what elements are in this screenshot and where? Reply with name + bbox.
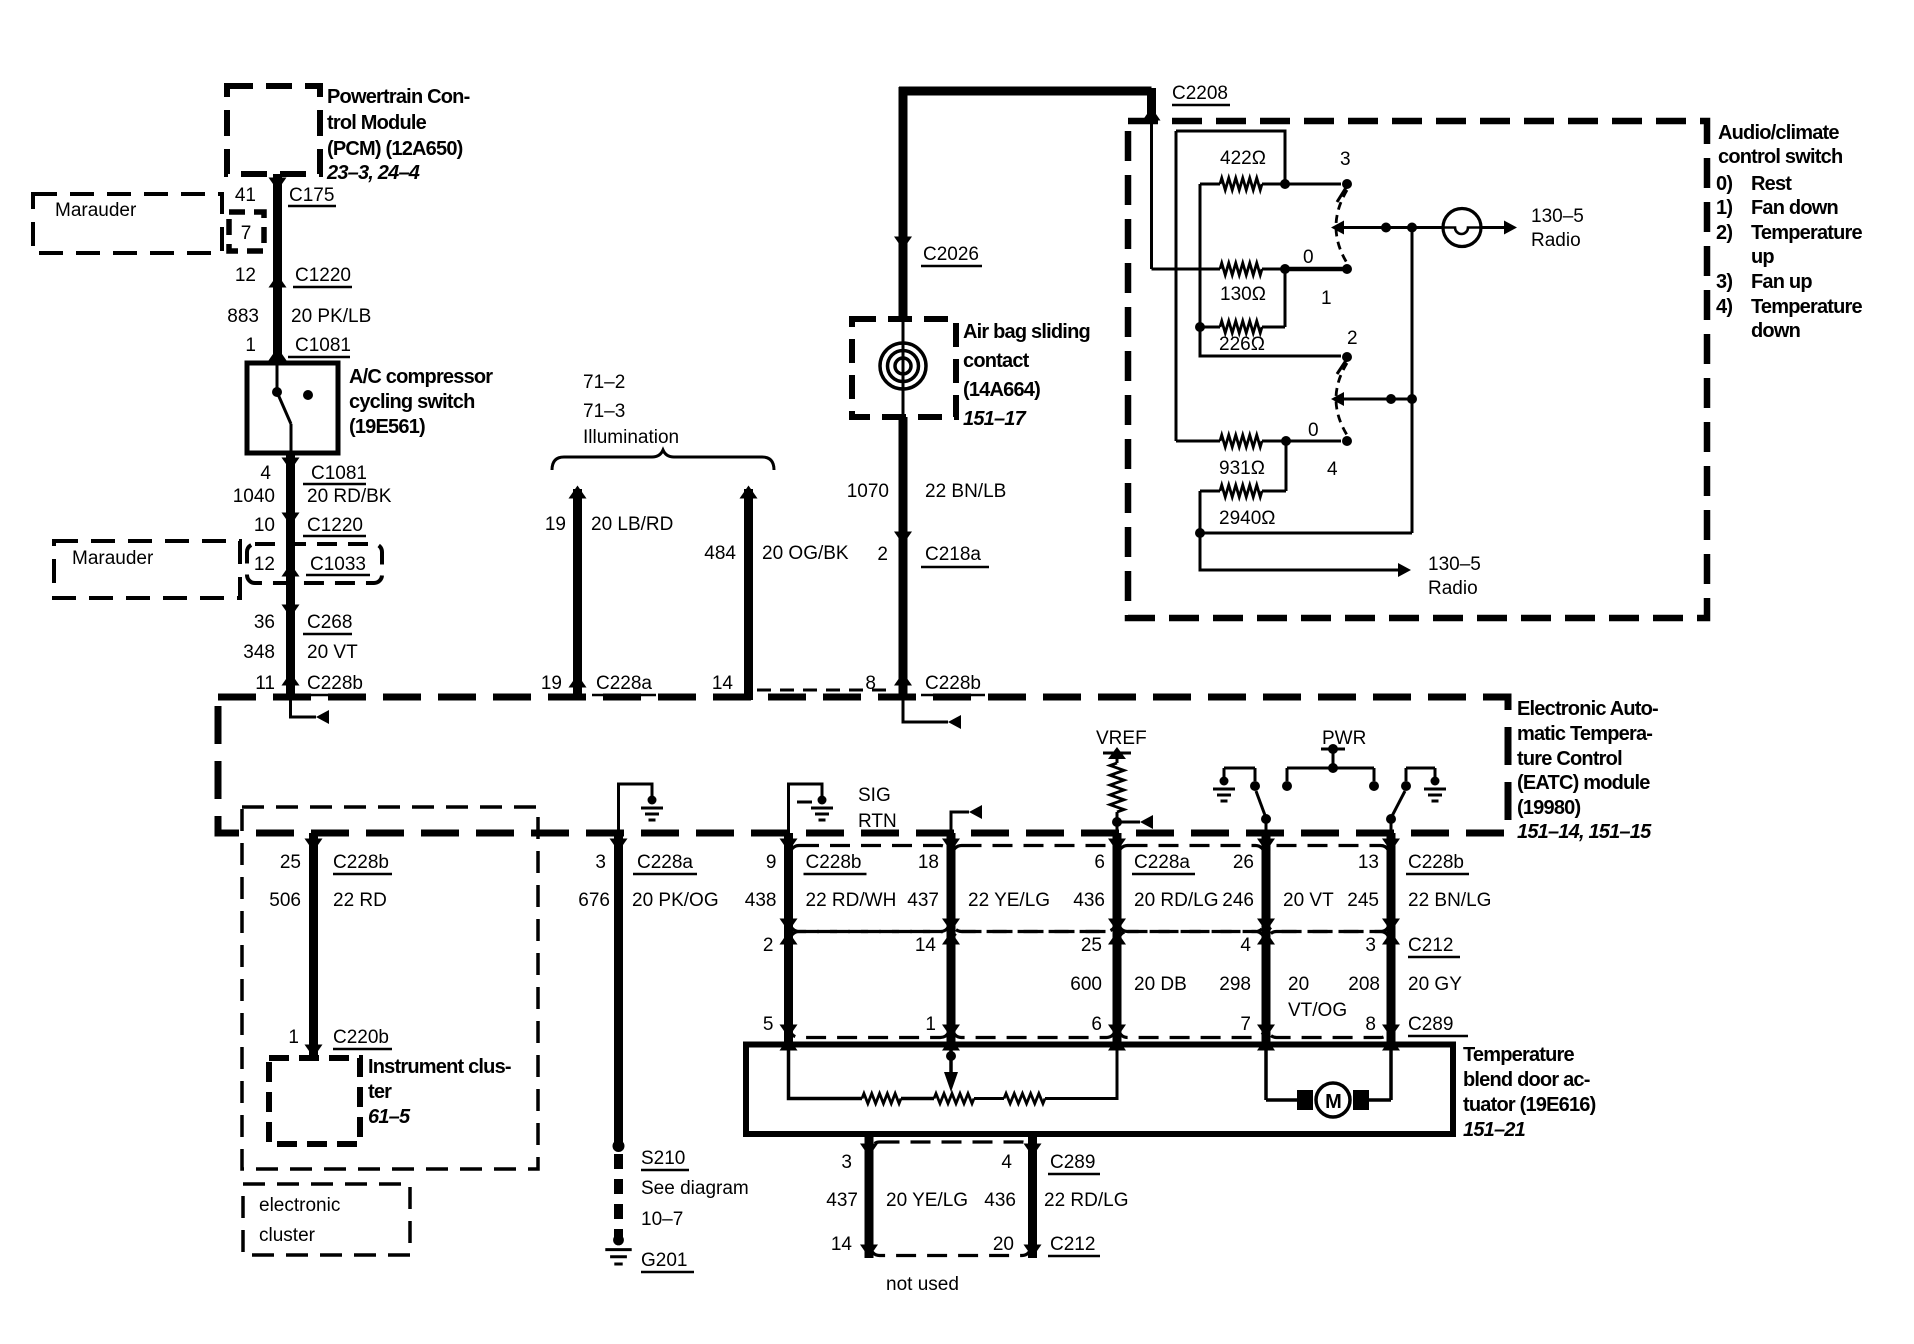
svg-text:(19980): (19980) xyxy=(1517,797,1580,819)
svg-text:C175: C175 xyxy=(289,185,334,206)
wire air bag to EATC pin8 xyxy=(899,417,908,700)
electronic cluster box xyxy=(243,1184,410,1255)
svg-text:20 PK/OG: 20 PK/OG xyxy=(632,890,719,911)
svg-text:4: 4 xyxy=(1240,935,1251,956)
VREF pullup resistor xyxy=(1103,752,1131,755)
svg-text:22 YE/LG: 22 YE/LG xyxy=(968,890,1050,911)
arrow to radio 130-5 top xyxy=(1481,226,1504,229)
svg-text:1: 1 xyxy=(925,1014,936,1035)
svg-text:tuator (19E616): tuator (19E616) xyxy=(1463,1094,1596,1116)
svg-text:Fan down: Fan down xyxy=(1751,197,1838,219)
svg-text:436: 436 xyxy=(984,1190,1016,1211)
svg-text:8: 8 xyxy=(865,673,876,694)
sub connector boxes row2 xyxy=(790,932,950,1038)
svg-text:PWR: PWR xyxy=(1322,728,1366,749)
svg-text:RTN: RTN xyxy=(858,811,897,832)
svg-text:Rest: Rest xyxy=(1751,173,1792,195)
wire from wiper junction down xyxy=(1411,228,1414,534)
svg-text:10–7: 10–7 xyxy=(641,1209,683,1230)
svg-text:Temperature: Temperature xyxy=(1751,222,1863,244)
bottom switch wiper arrow xyxy=(1331,392,1344,406)
svg-text:130–5: 130–5 xyxy=(1428,554,1481,575)
wire 19 20 LB/RD xyxy=(573,489,582,700)
EATC internal arrow pin 18 xyxy=(951,812,969,833)
EATC switch pin 26 blade xyxy=(1256,791,1266,818)
svg-text:41: 41 xyxy=(235,185,256,206)
svg-text:0: 0 xyxy=(1303,247,1314,268)
svg-text:4): 4) xyxy=(1716,296,1732,318)
svg-text:trol Module: trol Module xyxy=(327,112,427,134)
svg-text:S210: S210 xyxy=(641,1148,685,1169)
connector C228b pin8 arrow xyxy=(894,673,912,686)
svg-text:11: 11 xyxy=(255,673,275,694)
svg-text:23–3, 24–4: 23–3, 24–4 xyxy=(326,162,420,184)
svg-text:3: 3 xyxy=(1365,935,1376,956)
svg-text:22 RD/LG: 22 RD/LG xyxy=(1044,1190,1128,1211)
PCM module box (Powertrain Control Module) xyxy=(227,86,320,174)
svg-text:422Ω: 422Ω xyxy=(1220,148,1266,169)
svg-text:ture Control: ture Control xyxy=(1517,748,1622,770)
svg-text:348: 348 xyxy=(243,642,275,663)
svg-text:Marauder: Marauder xyxy=(72,548,154,569)
svg-text:437: 437 xyxy=(907,890,939,911)
svg-text:22 RD: 22 RD xyxy=(333,890,387,911)
audio/climate control switch box xyxy=(1128,121,1707,618)
contact 3 top switch xyxy=(1285,183,1341,186)
svg-text:C228a: C228a xyxy=(637,852,693,873)
svg-text:down: down xyxy=(1751,320,1800,342)
wire actuator pin 3 output xyxy=(865,1134,874,1258)
svg-text:208: 208 xyxy=(1348,974,1380,995)
resistor 130 ohm xyxy=(1152,268,1221,271)
svg-text:not used: not used xyxy=(886,1274,959,1295)
svg-text:931Ω: 931Ω xyxy=(1219,458,1265,479)
svg-text:20 RD/LG: 20 RD/LG xyxy=(1134,890,1218,911)
svg-text:1: 1 xyxy=(1321,288,1332,309)
wire wiper return junction xyxy=(1200,532,1412,535)
wire drop into audio/climate switch C2208 xyxy=(1147,88,1156,114)
svg-text:(14A664): (14A664) xyxy=(963,379,1040,401)
svg-text:C289: C289 xyxy=(1050,1152,1095,1173)
svg-text:contact: contact xyxy=(963,350,1030,372)
EATC internal arrow pin 11 xyxy=(291,700,317,717)
svg-text:25: 25 xyxy=(1081,935,1102,956)
svg-text:2: 2 xyxy=(763,935,774,956)
svg-text:151–17: 151–17 xyxy=(963,408,1027,430)
wire 422 lead down to 226 junction xyxy=(1199,184,1202,327)
splice 7 box xyxy=(229,212,264,251)
illumination brace xyxy=(552,450,774,470)
connector C1081 lower arrow xyxy=(282,458,300,471)
svg-text:Temperature: Temperature xyxy=(1751,296,1863,318)
connector C175 arrow xyxy=(269,178,287,191)
svg-text:20 RD/BK: 20 RD/BK xyxy=(307,486,392,507)
svg-text:25: 25 xyxy=(280,852,301,873)
svg-text:22 BN/LG: 22 BN/LG xyxy=(1408,890,1491,911)
resistor 2940 ohm xyxy=(1285,441,1288,491)
svg-text:1070: 1070 xyxy=(847,481,889,502)
svg-text:6: 6 xyxy=(1091,1014,1102,1035)
svg-text:Powertrain Con-: Powertrain Con- xyxy=(327,86,470,108)
EATC switch pin 26 ground bracket xyxy=(1224,767,1255,770)
svg-text:484: 484 xyxy=(704,543,736,564)
svg-text:14: 14 xyxy=(915,935,937,956)
svg-text:VT/OG: VT/OG xyxy=(1288,1000,1347,1021)
wire S210 to ground G201 dashed xyxy=(614,1154,623,1238)
svg-text:electronic: electronic xyxy=(259,1195,340,1216)
svg-text:Radio: Radio xyxy=(1531,230,1581,251)
air bag clockspring spiral xyxy=(902,319,905,417)
wire EATC pin 6 down through connectors xyxy=(1113,833,1122,1044)
svg-text:up: up xyxy=(1751,246,1774,268)
svg-text:10: 10 xyxy=(254,515,275,536)
wire EATC pin 26 down through connectors xyxy=(1262,833,1271,1044)
wire below A/C switch xyxy=(286,453,295,700)
svg-text:M: M xyxy=(1325,1091,1341,1113)
EATC internal ground pin 9 SIG RTN xyxy=(789,784,823,833)
svg-text:C2208: C2208 xyxy=(1172,83,1228,104)
svg-text:1): 1) xyxy=(1716,197,1732,219)
svg-text:1: 1 xyxy=(288,1027,299,1048)
EATC module box xyxy=(218,697,1508,833)
top loop wire to 422 ohm xyxy=(1176,131,1285,184)
svg-text:2: 2 xyxy=(1347,328,1358,349)
connector C218a arrow xyxy=(894,532,912,545)
svg-text:226Ω: 226Ω xyxy=(1219,334,1265,355)
svg-text:438: 438 xyxy=(745,890,777,911)
connector C2026 arrow xyxy=(894,237,912,250)
svg-text:130–5: 130–5 xyxy=(1531,206,1584,227)
svg-text:0: 0 xyxy=(1308,420,1319,441)
svg-text:SIG: SIG xyxy=(858,785,891,806)
audio switch feed wire from C2208 xyxy=(1150,121,1153,269)
svg-text:C212: C212 xyxy=(1050,1234,1095,1255)
wire EATC pin 25 to instrument cluster xyxy=(309,833,318,1058)
A/C compressor cycling switch box xyxy=(247,363,338,453)
svg-text:246: 246 xyxy=(1222,890,1254,911)
svg-text:C228a: C228a xyxy=(596,673,652,694)
svg-text:Instrument clus-: Instrument clus- xyxy=(368,1056,511,1078)
PWR feed bar xyxy=(1321,748,1345,751)
svg-text:20 LB/RD: 20 LB/RD xyxy=(591,514,673,535)
wire to radio 130-5 bottom xyxy=(1200,533,1398,570)
svg-text:C1033: C1033 xyxy=(310,554,366,575)
svg-text:19: 19 xyxy=(545,514,566,535)
svg-text:130Ω: 130Ω xyxy=(1220,284,1266,305)
svg-text:C289: C289 xyxy=(1408,1014,1453,1035)
svg-text:19: 19 xyxy=(541,673,562,694)
svg-text:Temperature: Temperature xyxy=(1463,1044,1575,1066)
not used connector box xyxy=(871,1142,1032,1256)
svg-text:151–14, 151–15: 151–14, 151–15 xyxy=(1517,821,1652,843)
splice S210 xyxy=(613,1140,625,1152)
svg-text:20: 20 xyxy=(1288,974,1309,995)
resistor 422 ohm xyxy=(1200,183,1220,186)
svg-text:7: 7 xyxy=(241,223,252,244)
Marauder option box xyxy=(33,194,222,253)
wire 484 20 OG/BK xyxy=(744,489,753,700)
svg-text:matic Tempera-: matic Tempera- xyxy=(1517,723,1652,745)
wire EATC pin 3 to splice S210 xyxy=(614,833,623,1146)
svg-text:4: 4 xyxy=(1327,459,1338,480)
svg-text:12: 12 xyxy=(254,554,275,575)
svg-text:14: 14 xyxy=(831,1234,853,1255)
svg-text:3: 3 xyxy=(1340,149,1351,170)
ground G201 xyxy=(613,1235,624,1246)
svg-text:676: 676 xyxy=(578,890,610,911)
svg-text:2): 2) xyxy=(1716,222,1732,244)
svg-text:Fan up: Fan up xyxy=(1751,271,1812,293)
svg-text:C1081: C1081 xyxy=(295,335,351,356)
A/C switch internal contacts xyxy=(276,363,279,392)
svg-text:61–5: 61–5 xyxy=(368,1106,411,1128)
svg-text:506: 506 xyxy=(269,890,301,911)
instrument cluster outer box xyxy=(242,807,538,1169)
connector C1033 box xyxy=(247,544,382,583)
svg-text:20 VT: 20 VT xyxy=(307,642,358,663)
svg-text:436: 436 xyxy=(1073,890,1105,911)
svg-text:1: 1 xyxy=(245,335,256,356)
svg-text:3): 3) xyxy=(1716,271,1732,293)
VREF internal arrow xyxy=(1117,821,1140,824)
svg-text:20 YE/LG: 20 YE/LG xyxy=(886,1190,968,1211)
svg-text:4: 4 xyxy=(1001,1152,1012,1173)
svg-text:2: 2 xyxy=(877,544,888,565)
instrument cluster inner box xyxy=(269,1058,360,1144)
svg-text:Marauder: Marauder xyxy=(55,200,137,221)
illumination lamp xyxy=(1443,209,1481,247)
svg-text:9: 9 xyxy=(766,852,777,873)
svg-text:3: 3 xyxy=(841,1152,852,1173)
svg-text:cluster: cluster xyxy=(259,1225,316,1246)
svg-text:C220b: C220b xyxy=(333,1027,389,1048)
PWR rail to switch throws xyxy=(1287,767,1374,770)
connector dashed gap line between pin14 and pin8 xyxy=(757,689,893,692)
svg-text:8: 8 xyxy=(1365,1014,1376,1035)
top switch wiper arrow xyxy=(1331,221,1344,235)
svg-text:20: 20 xyxy=(993,1234,1014,1255)
svg-text:C228b: C228b xyxy=(333,852,389,873)
connector C268 arrow xyxy=(282,605,300,618)
svg-text:12: 12 xyxy=(235,265,256,286)
svg-text:71–3: 71–3 xyxy=(583,401,625,422)
svg-text:14: 14 xyxy=(712,673,734,694)
svg-text:C218a: C218a xyxy=(925,544,981,565)
svg-text:C228b: C228b xyxy=(307,673,363,694)
contact 0 top switch xyxy=(1342,264,1352,274)
svg-text:883: 883 xyxy=(227,306,259,327)
resistor 226 ohm xyxy=(1220,321,1262,333)
svg-text:C1081: C1081 xyxy=(311,463,367,484)
svg-text:245: 245 xyxy=(1347,890,1379,911)
svg-text:(19E561): (19E561) xyxy=(349,416,425,438)
wire EATC pin 13 down through connectors xyxy=(1387,833,1396,1044)
svg-text:20 OG/BK: 20 OG/BK xyxy=(762,543,849,564)
svg-text:1040: 1040 xyxy=(233,486,275,507)
connector C228b pin11 arrow xyxy=(282,673,300,686)
svg-text:C228b: C228b xyxy=(806,852,862,873)
svg-text:Audio/climate: Audio/climate xyxy=(1718,122,1839,144)
svg-text:cycling switch: cycling switch xyxy=(349,391,475,413)
EATC internal ground pin 3 xyxy=(619,784,653,833)
svg-text:0): 0) xyxy=(1716,173,1732,195)
svg-text:5: 5 xyxy=(763,1014,774,1035)
svg-text:20 DB: 20 DB xyxy=(1134,974,1187,995)
svg-text:151–21: 151–21 xyxy=(1463,1119,1526,1141)
resistor 931 ohm xyxy=(1175,131,1178,441)
svg-text:600: 600 xyxy=(1070,974,1102,995)
potentiometer track xyxy=(789,1044,863,1099)
connector C1033 arrow xyxy=(282,564,300,577)
svg-text:71–2: 71–2 xyxy=(583,372,625,393)
svg-text:control switch: control switch xyxy=(1718,146,1842,168)
connector C220b arrow xyxy=(305,1045,323,1058)
EATC switch pin 13 ground bracket xyxy=(1406,767,1435,770)
bottom switch wiper arc xyxy=(1336,363,1347,435)
svg-text:(PCM) (12A650): (PCM) (12A650) xyxy=(327,138,463,160)
connector C1220 lower arrow xyxy=(282,513,300,526)
svg-text:Illumination: Illumination xyxy=(583,427,679,448)
Marauder option box 2 xyxy=(54,541,240,598)
blend door motor M xyxy=(1264,1044,1268,1100)
trunk wire top horizontal to C2208 xyxy=(899,87,1152,96)
svg-text:C228b: C228b xyxy=(1408,852,1464,873)
svg-text:C1220: C1220 xyxy=(295,265,351,286)
svg-text:437: 437 xyxy=(826,1190,858,1211)
svg-text:C228b: C228b xyxy=(925,673,981,694)
connector C228a pin19 arrow xyxy=(569,675,587,688)
svg-text:C2026: C2026 xyxy=(923,244,979,265)
svg-text:13: 13 xyxy=(1358,852,1379,873)
svg-text:blend door ac-: blend door ac- xyxy=(1463,1069,1590,1091)
svg-text:3: 3 xyxy=(595,852,606,873)
svg-text:20 PK/LB: 20 PK/LB xyxy=(291,306,371,327)
wire EATC pin 9 down through connectors xyxy=(784,833,793,1044)
svg-text:4: 4 xyxy=(260,463,271,484)
connector C1081 arrow xyxy=(269,348,287,361)
svg-text:C228a: C228a xyxy=(1134,852,1190,873)
trunk wire down to air bag sliding contact xyxy=(899,87,908,319)
svg-text:Electronic Auto-: Electronic Auto- xyxy=(1517,698,1658,720)
svg-text:7: 7 xyxy=(1240,1014,1251,1035)
wire EATC pin 18 down through connectors xyxy=(947,833,956,1044)
svg-text:22 RD/WH: 22 RD/WH xyxy=(806,890,897,911)
svg-text:36: 36 xyxy=(254,612,275,633)
wire PCM to A/C compressor cycling switch xyxy=(273,174,282,363)
svg-text:C268: C268 xyxy=(307,612,352,633)
svg-text:G201: G201 xyxy=(641,1250,687,1271)
air bag sliding contact box xyxy=(852,319,956,417)
svg-text:VREF: VREF xyxy=(1096,728,1147,749)
svg-text:6: 6 xyxy=(1094,852,1105,873)
svg-text:See diagram: See diagram xyxy=(641,1178,749,1199)
svg-text:Radio: Radio xyxy=(1428,578,1478,599)
svg-text:298: 298 xyxy=(1219,974,1251,995)
svg-text:20 GY: 20 GY xyxy=(1408,974,1462,995)
svg-text:(EATC) module: (EATC) module xyxy=(1517,772,1650,794)
EATC internal arrow pin 8 xyxy=(903,700,948,722)
contact 0 bottom switch xyxy=(1342,436,1352,446)
top switch wiper arc xyxy=(1336,190,1347,263)
svg-text:C1220: C1220 xyxy=(307,515,363,536)
svg-text:18: 18 xyxy=(918,852,939,873)
temperature blend door actuator box xyxy=(746,1045,1453,1135)
sub connector boxes row1 xyxy=(790,846,950,932)
svg-text:ter: ter xyxy=(368,1081,392,1103)
svg-text:26: 26 xyxy=(1233,852,1254,873)
svg-text:A/C compressor: A/C compressor xyxy=(349,366,493,388)
EATC switch pin 13 blade xyxy=(1391,791,1405,818)
svg-text:22 BN/LB: 22 BN/LB xyxy=(925,481,1006,502)
svg-text:C212: C212 xyxy=(1408,935,1453,956)
svg-text:2940Ω: 2940Ω xyxy=(1219,508,1275,529)
wire to fan switch contact 2 xyxy=(1200,327,1341,356)
potentiometer wiper arrow xyxy=(949,1044,953,1074)
contact 2 bottom switch xyxy=(1342,352,1352,362)
connector C1220 arrow xyxy=(269,275,287,288)
svg-text:20 VT: 20 VT xyxy=(1283,890,1334,911)
svg-text:Air bag sliding: Air bag sliding xyxy=(963,321,1090,343)
wire actuator pin 4 output xyxy=(1028,1134,1037,1258)
